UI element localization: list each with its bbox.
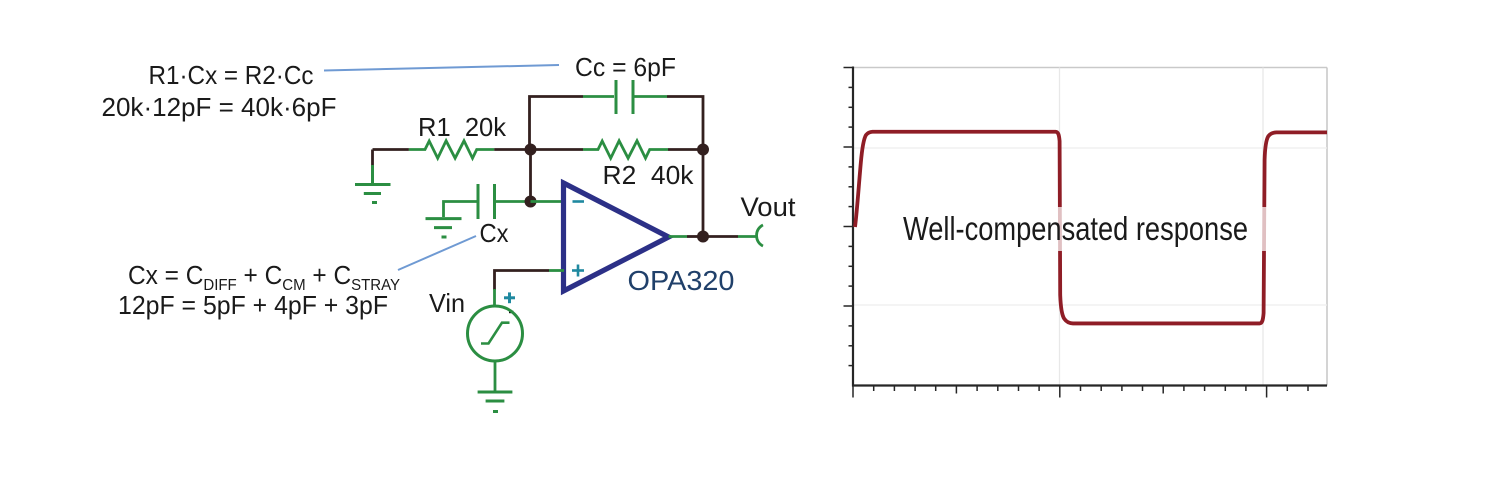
wire: output to node D: [687, 235, 703, 238]
wire: node C to op-amp inverting input: [531, 200, 565, 203]
output terminal arc: [757, 225, 763, 246]
op-amp U1 triangle: [564, 183, 669, 291]
ground G1: [355, 165, 391, 203]
capacitor Cc: [616, 80, 633, 114]
y axis ticks: [844, 68, 854, 366]
Vin polarity minus dash: [509, 311, 514, 313]
wire: Vin source bottom lead (green): [494, 361, 497, 392]
callout line to Cc: [324, 65, 559, 71]
callout line to Cx: [398, 236, 476, 270]
formula text: Cx = CDIFF + CCM + CSTRAY: [128, 261, 401, 294]
wire: R1 to node A: [494, 148, 530, 151]
wire: R2 to node B: [668, 148, 703, 151]
svg-text:Cc = 6pF: Cc = 6pF: [575, 52, 676, 82]
wire: op-amp output lead (green): [669, 235, 687, 238]
node A junction dot: [525, 144, 537, 156]
svg-text:Cx: Cx: [480, 218, 509, 248]
chart vertical gridline 1: [1059, 68, 1061, 386]
Vin polarity plus: [504, 292, 515, 303]
capacitor Cx: [478, 184, 495, 219]
wire: Cc right lead (green): [635, 95, 668, 98]
chart right border: [1326, 68, 1328, 386]
wire: output terminal lead (green): [738, 235, 756, 238]
wire: Cx right lead to node C: [496, 200, 530, 203]
chart vertical gridline 2: [1262, 68, 1264, 386]
waveform trace: [855, 132, 1327, 324]
op-amp inverting input marker: [573, 200, 585, 203]
chart horizontal gridline 1: [853, 147, 1327, 149]
wire: node D to output terminal: [703, 235, 738, 238]
svg-text:Well-compensated response: Well-compensated response: [903, 210, 1248, 247]
resistor R1: [409, 141, 494, 158]
chart top border: [853, 67, 1327, 69]
source V1 step symbol: [481, 323, 510, 344]
op-amp non-inverting input marker: [572, 265, 584, 277]
svg-text:R1 20k: R1 20k: [418, 112, 507, 142]
svg-text:R1·Cx = R2·Cc: R1·Cx = R2·Cc: [149, 60, 314, 90]
capacitor Cx left lead and ground drop: [444, 202, 477, 218]
node C junction dot: [525, 196, 537, 208]
x axis: [852, 384, 1327, 386]
svg-text:R2 40k: R2 40k: [603, 160, 695, 190]
y axis: [852, 67, 854, 387]
ground G2: [426, 219, 462, 237]
x axis ticks: [853, 386, 1308, 398]
node D junction dot: [697, 231, 709, 243]
annotation background box: [897, 207, 1267, 251]
wire: R1 input dark segment: [373, 148, 409, 151]
svg-text:Vout: Vout: [741, 192, 796, 222]
source V1 circle: [468, 306, 523, 361]
wire: node B to node D vertical feedback: [702, 150, 705, 237]
wire: Vin to non-inverting input: [495, 271, 550, 291]
wire: Vin source top lead (green): [493, 289, 496, 306]
ground G3: [478, 392, 513, 412]
resistor R2: [583, 141, 668, 158]
node B junction dot: [697, 144, 709, 156]
wire: feedback top-left vertical and horizontal to Cc: [530, 97, 584, 150]
svg-text:OPA320: OPA320: [628, 265, 735, 296]
ground G1 stem (wire): [371, 150, 374, 168]
wire: node A to R2: [530, 148, 583, 151]
chart horizontal gridline 2: [853, 304, 1327, 306]
wire: feedback top-right horizontal and vertical: [667, 97, 703, 150]
wire: node A to node C vertical: [529, 150, 532, 202]
svg-text:20k·12pF = 40k·6pF: 20k·12pF = 40k·6pF: [102, 92, 337, 122]
wire: op-amp non-inverting input (green): [549, 269, 564, 272]
svg-text:Vin: Vin: [429, 288, 465, 318]
svg-text:12pF = 5pF + 4pF + 3pF: 12pF = 5pF + 4pF + 3pF: [118, 290, 388, 320]
wire: Cc left lead (green): [583, 95, 614, 98]
